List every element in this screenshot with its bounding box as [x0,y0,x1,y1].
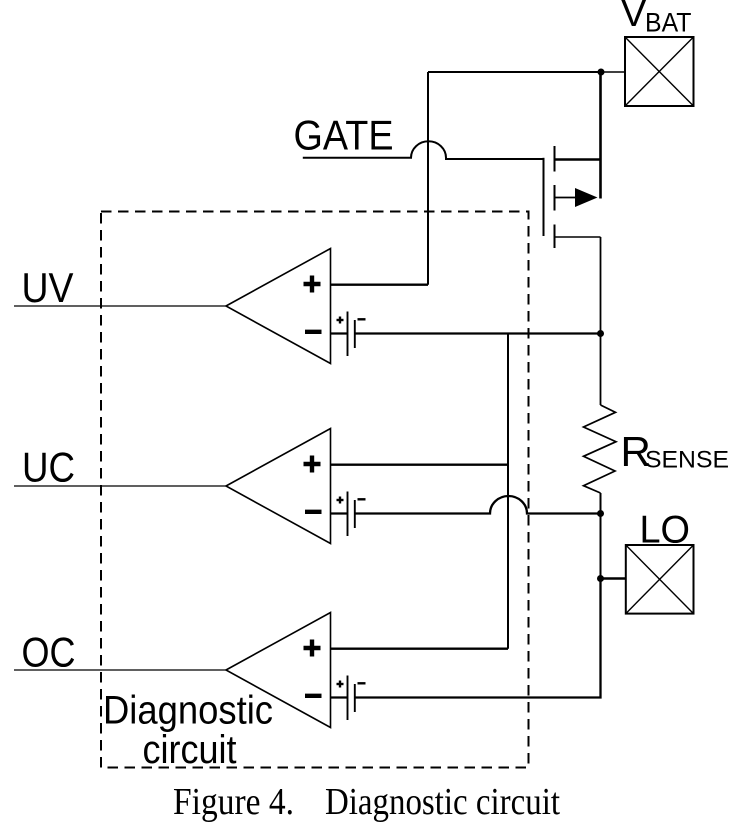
svg-text:UV: UV [22,264,74,311]
svg-text:BAT: BAT [645,8,692,38]
svg-text:SENSE: SENSE [645,446,729,473]
node junction dot LO tap [597,575,604,582]
caption Figure 4. Diagnostic circuit [173,781,560,823]
label Diagnostic circuit [103,689,273,773]
wire UC- output with hop over inner vertical [355,496,601,514]
wire UV+ input [331,284,429,286]
wire UV- output to rail [355,332,601,334]
wire rail: resistor down past LO to OC- corner [600,493,602,698]
wire vertical from top rail to UV+ input [427,72,429,285]
svg-text:LO: LO [640,508,691,551]
wire rail: MOSFET source down to resistor [600,237,602,405]
terminal VBAT (box with X) [625,37,694,106]
node junction dot at VBAT rail [598,69,605,76]
plus sign inside [304,646,321,650]
plus sign inside [304,282,321,286]
minus sign inside [305,510,322,514]
wire LO stub [601,577,626,579]
wire UC- to battery [331,512,348,514]
wire OC input [14,669,226,671]
wire OC- to battery [331,696,348,698]
dashed box Diagnostic circuit [101,212,529,768]
minus sign inside [305,330,322,334]
battery V1 (UV offset) [337,312,366,357]
transistor Q1 (MOSFET) [544,72,601,248]
op-amp U3 (OC comparator) [226,613,331,728]
svg-text:UC: UC [22,444,75,491]
body arrow [555,197,578,199]
node junction dot UC- on rail [597,510,604,517]
resistor RSENSE [584,405,617,493]
channel segment bottom [554,225,556,249]
wire UV- to battery [331,332,348,334]
svg-text:Figure 4.: Figure 4. [173,781,294,823]
node junction dot UV- on rail [597,330,604,337]
wire top rail to VBAT [428,71,625,73]
wire inner vertical (UV- net down to UC+/OC+) [507,334,509,649]
label VBAT [621,0,692,38]
channel segment middle [554,185,556,211]
wire UV input [14,305,226,307]
wire UC+ input [331,464,509,466]
op-amp U1 (UV comparator) [226,249,331,364]
drain connection [555,158,601,161]
battery V3 (OC offset) [337,676,366,721]
label RSENSE [621,428,730,475]
plus sign inside [304,462,321,466]
wire GATE with hop over vertical [303,141,544,159]
svg-text:GATE: GATE [294,111,394,158]
svg-text:Diagnostic circuit: Diagnostic circuit [325,781,560,823]
channel segment top [554,146,556,172]
op-amp U2 (UC comparator) [226,429,331,544]
terminal LO (box with X) [626,545,694,614]
svg-text:Diagnostic: Diagnostic [103,689,273,733]
wire OC+ input [331,648,509,650]
source connection [555,236,601,238]
gate bar [543,158,545,236]
wire UC input [14,485,226,487]
battery V2 (UC offset) [337,492,366,537]
minus sign inside [305,694,322,698]
wire OC- output to rail corner [355,579,601,698]
svg-text:circuit: circuit [143,728,237,772]
svg-text:V: V [621,0,647,35]
svg-text:OC: OC [22,629,76,676]
